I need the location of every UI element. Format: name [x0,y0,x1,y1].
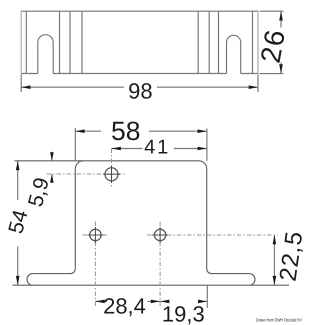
front view top edge with left extension [15,160,199,162]
arrow 5,9 up [50,174,54,183]
arrow 28,4 right [151,300,160,304]
svg-text:22,5: 22,5 [275,229,303,283]
dim 28,4 and 19,3 lines [95,300,207,302]
front view right web edge [206,169,208,269]
left hole center line horizontal [83,234,110,236]
front view top-left corner arc [75,161,83,169]
svg-text:54: 54 [4,207,32,236]
top view bend line x=82 [81,11,83,73]
top view right outer edge [257,11,259,75]
arrow 54 up [16,161,20,170]
top view bend line x=26.3 [25,11,27,73]
top view bottom edge (gaps at slots) [21,73,258,75]
top view bend line x=198.2 [197,11,199,73]
arrow 28,4 left [95,300,104,304]
front view left web edge [74,169,76,269]
arrow 58 right [198,129,207,133]
arrow 98 left [21,85,30,89]
arrow 41 left [112,147,121,151]
top hole center line vertical [111,149,113,187]
dim 58 line [75,130,207,132]
right hole center line horizontal (ext for 22,5) [147,234,278,236]
front view right inner bend [207,269,212,274]
top view bend line x=209.2 [208,11,210,73]
dim 58/41 extension right [206,129,208,161]
dim 26 line [280,11,282,73]
top view bend line x=218.5 [218,11,220,73]
svg-text:Drawn from DWH Osculati Srl: Drawn from DWH Osculati Srl [256,317,302,322]
left hole cross [88,227,104,243]
top hole cross [103,166,120,183]
dim 98 line [21,86,258,88]
top hole center line horizontal [47,173,125,175]
svg-text:19,3: 19,3 [162,302,205,325]
svg-text:58: 58 [111,116,140,146]
dim 41 line [112,148,207,150]
arrow 98 right [249,85,258,89]
front view left flange tip arc [27,274,33,286]
arrow 22,5 up [273,235,277,244]
front view right flange tip arc [249,274,255,286]
extension line below right edge [206,285,208,308]
right hole cross [152,227,168,243]
top view left slot [38,35,53,74]
svg-text:26: 26 [255,26,291,65]
arrow 19,3 right [198,300,207,304]
svg-text:28,4: 28,4 [103,294,146,319]
svg-text:5,9: 5,9 [24,175,54,209]
top view left outer edge [20,11,22,75]
svg-text:98: 98 [128,78,152,103]
top view bend line x=252.5 [252,11,254,73]
left hole center line vertical [94,222,96,309]
arrow 19,3 left [160,300,169,304]
arrow 54 down [16,276,20,285]
arrow 5,9 down [50,152,54,161]
dim 98 extension lines [21,75,258,92]
dim 54 line [17,161,19,285]
arrow 26 up [279,11,283,20]
dim 22,5 line [273,235,275,285]
dim 26 extension lines [260,11,284,73]
arrow 58 left [75,129,84,133]
top view bend line x=59.5 [59,11,61,73]
front view left inner bend [71,269,76,274]
top view top edge [21,10,258,12]
front view bottom edge with extensions [13,284,290,286]
left hole circle [90,229,101,240]
top view right slot [227,35,241,73]
arrow 26 down [279,64,283,73]
top hole circle [105,168,118,181]
right hole center line vertical [159,222,161,309]
front view right flange top [212,273,250,275]
arrow 41 right [198,147,207,151]
dim 5,9 arrow stems [51,152,53,183]
arrow 22,5 down [273,276,277,285]
front view left flange top [33,273,71,275]
front view top-right corner arc [199,161,207,169]
top view bend line x=70 [69,11,71,73]
right hole circle [154,229,165,240]
svg-text:41: 41 [144,137,170,159]
dim 58 extension left [74,128,76,161]
